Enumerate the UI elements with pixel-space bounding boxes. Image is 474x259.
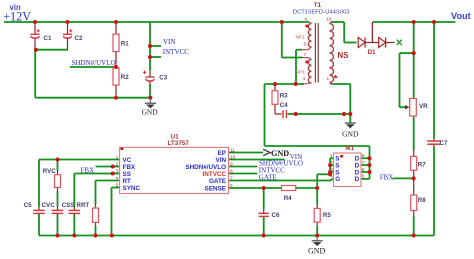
svg-text:SS: SS xyxy=(123,171,131,178)
svg-text:CVC: CVC xyxy=(42,202,56,209)
svg-text:7: 7 xyxy=(362,160,365,166)
svg-text:R8: R8 xyxy=(418,197,426,204)
svg-text:GND: GND xyxy=(342,130,359,139)
svg-text:SHDN#/UVLO: SHDN#/UVLO xyxy=(72,59,116,67)
svg-text:C2: C2 xyxy=(75,35,83,42)
svg-text:SHDN#/UVLO: SHDN#/UVLO xyxy=(185,164,226,171)
svg-text:10: 10 xyxy=(230,154,236,160)
svg-text:C1: C1 xyxy=(44,35,52,42)
svg-text:VIN: VIN xyxy=(216,157,227,164)
svg-text:1: 1 xyxy=(116,154,119,160)
svg-text:4: 4 xyxy=(303,76,306,82)
svg-text:6: 6 xyxy=(305,17,308,23)
svg-text:6: 6 xyxy=(230,183,233,189)
svg-text:C5: C5 xyxy=(24,202,32,209)
svg-text:RT: RT xyxy=(123,178,132,185)
svg-text:3: 3 xyxy=(330,167,333,173)
svg-text:GND: GND xyxy=(271,149,289,158)
svg-text:LT3757: LT3757 xyxy=(168,140,190,147)
svg-text:FBX: FBX xyxy=(81,166,95,174)
svg-text:8: 8 xyxy=(362,153,365,159)
svg-text:DCT15EFD-U44S003: DCT15EFD-U44S003 xyxy=(293,10,351,16)
svg-text:C7: C7 xyxy=(440,140,448,147)
svg-text:FBX: FBX xyxy=(123,164,136,171)
svg-text:M1: M1 xyxy=(345,145,354,152)
svg-text:R1: R1 xyxy=(121,40,129,47)
svg-text:7: 7 xyxy=(230,175,233,181)
svg-text:T1: T1 xyxy=(314,2,322,9)
svg-text:SYNC: SYNC xyxy=(123,185,141,192)
svg-text:5: 5 xyxy=(116,182,119,188)
svg-text:R2: R2 xyxy=(121,74,129,81)
svg-text:3: 3 xyxy=(116,168,119,174)
svg-text:SENSE: SENSE xyxy=(205,185,226,192)
svg-text:C3: C3 xyxy=(159,75,167,82)
svg-text:4: 4 xyxy=(116,175,119,181)
svg-text:D1: D1 xyxy=(368,49,377,56)
svg-text:*: * xyxy=(334,74,338,85)
svg-text:10: 10 xyxy=(326,17,332,23)
svg-text:GATE: GATE xyxy=(209,178,226,185)
svg-text:VIN: VIN xyxy=(163,38,175,46)
svg-text:2: 2 xyxy=(116,161,119,167)
svg-text:R7: R7 xyxy=(418,161,426,168)
svg-text:RVC: RVC xyxy=(43,168,56,175)
svg-text:11: 11 xyxy=(230,147,235,153)
svg-text:C6: C6 xyxy=(272,212,280,219)
svg-text:Vout: Vout xyxy=(451,11,471,21)
svg-text:CSS: CSS xyxy=(62,202,75,209)
svg-text:GND: GND xyxy=(142,108,159,117)
svg-text:R3: R3 xyxy=(280,93,288,100)
svg-text:9: 9 xyxy=(230,161,233,167)
svg-text:VC: VC xyxy=(123,157,132,164)
svg-text:INTVCC: INTVCC xyxy=(203,171,227,178)
svg-text:NP1: NP1 xyxy=(296,34,305,39)
svg-text:RRT: RRT xyxy=(77,202,90,209)
svg-text:5: 5 xyxy=(362,174,365,180)
svg-text:EP: EP xyxy=(218,150,226,157)
svg-text:VR: VR xyxy=(419,103,428,110)
svg-text:8: 8 xyxy=(230,168,233,174)
svg-text:1: 1 xyxy=(330,153,333,159)
svg-text:GND: GND xyxy=(308,246,326,255)
svg-text:GATE: GATE xyxy=(259,174,277,182)
svg-text:5: 5 xyxy=(304,42,307,48)
svg-text:7: 7 xyxy=(304,52,307,58)
svg-text:NP2: NP2 xyxy=(296,70,305,75)
svg-text:NS: NS xyxy=(338,51,349,60)
svg-text:+12V: +12V xyxy=(3,9,31,23)
svg-text:G: G xyxy=(335,176,340,183)
svg-text:R4: R4 xyxy=(284,195,292,202)
svg-text:FBX: FBX xyxy=(380,173,394,181)
svg-text:INTVCC: INTVCC xyxy=(163,48,189,56)
svg-text:1: 1 xyxy=(327,76,330,82)
svg-text:C4: C4 xyxy=(280,102,288,109)
svg-text:6: 6 xyxy=(362,167,365,173)
svg-text:R5: R5 xyxy=(323,212,331,219)
svg-text:2: 2 xyxy=(330,160,333,166)
svg-text:4: 4 xyxy=(330,174,333,180)
svg-text:D: D xyxy=(355,176,360,183)
